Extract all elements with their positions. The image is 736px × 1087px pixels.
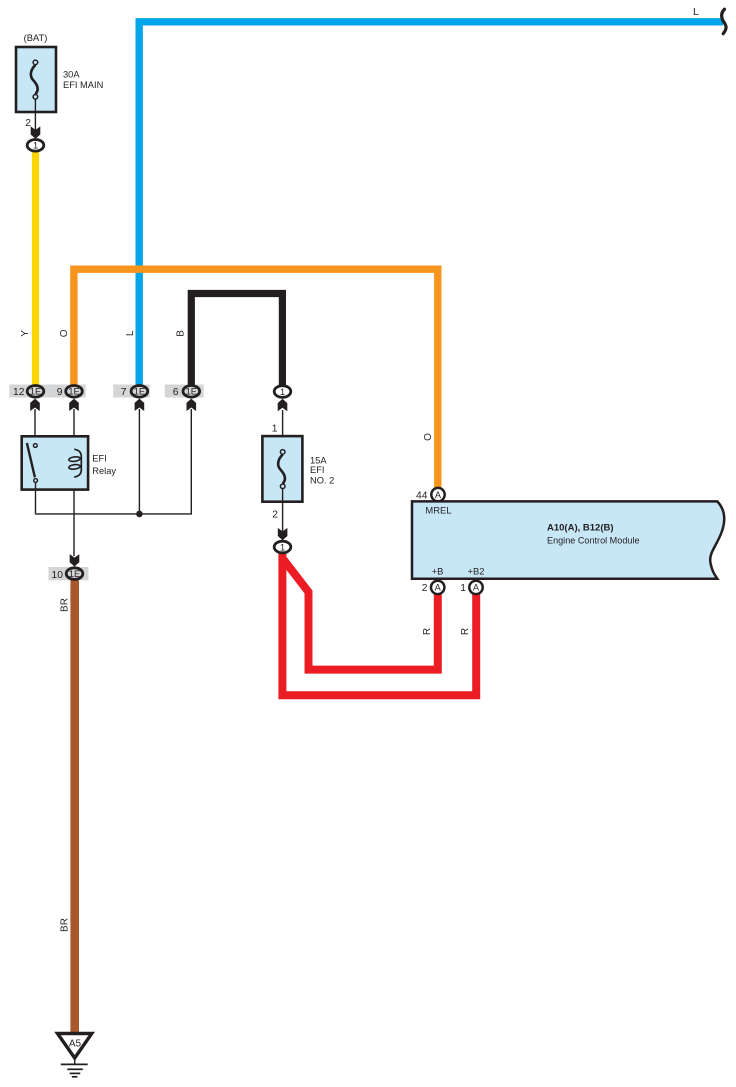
wire L (cyan) horizontal+vertical (139, 22, 723, 386)
wire fuse 15A to lower oval (282, 489, 284, 532)
svg-text:EFI: EFI (92, 454, 106, 464)
svg-text:1E: 1E (69, 569, 80, 579)
connector oval 1 (top of 15A column) (274, 386, 291, 398)
svg-text:NO. 2: NO. 2 (310, 476, 334, 486)
svg-text:6: 6 (173, 387, 179, 398)
pin 9 label (57, 387, 63, 398)
relay coil (69, 449, 82, 477)
svg-text:2: 2 (25, 118, 31, 129)
svg-text:A: A (435, 583, 442, 593)
svg-text:EFI: EFI (310, 465, 324, 475)
label R (+B column) (422, 628, 433, 635)
relay EFI box (22, 436, 88, 489)
svg-text:1: 1 (33, 141, 38, 151)
ground stem (74, 1058, 76, 1064)
svg-text:Y: Y (20, 330, 31, 337)
pin 44 circle A (431, 488, 444, 501)
arrow down into connector 1 (30A column) (31, 126, 41, 138)
wire pin12 to relay switch (34, 409, 36, 443)
svg-text:1: 1 (280, 542, 285, 552)
wire BR (brown) (70, 581, 79, 1033)
label EFI Relay (92, 454, 116, 476)
label 15A EFI NO. 2 (310, 456, 334, 486)
ground bar 4 (72, 1076, 78, 1078)
fuse 15A element symbol (278, 450, 285, 489)
svg-text:+B2: +B2 (468, 566, 485, 577)
svg-text:30A: 30A (63, 70, 80, 80)
svg-text:1E: 1E (186, 387, 197, 397)
wire O (orange) (74, 269, 438, 489)
svg-text:A5: A5 (69, 1039, 82, 1050)
svg-text:BR: BR (60, 598, 71, 612)
label Y (20, 330, 31, 337)
relay switch contacts (27, 443, 38, 482)
connector 1E pin9 oval (66, 386, 83, 398)
svg-text:EFI MAIN: EFI MAIN (63, 80, 103, 90)
connector oval 1 (below 30A fuse) (27, 140, 44, 152)
svg-text:Relay: Relay (92, 466, 116, 476)
pin 2 label (15A fuse bottom) (272, 510, 278, 521)
pin 2 label (+B) (422, 583, 428, 594)
fuse 30A element symbol (31, 60, 38, 99)
wire pin9 through relay coil down to 10 connector (73, 409, 75, 556)
arrow up into pin9 oval (69, 399, 79, 411)
label BR (lower) (60, 918, 71, 932)
connector 10 grey band (49, 567, 89, 580)
label L (mid) (125, 330, 136, 336)
label +B (432, 566, 444, 577)
svg-text:R: R (460, 628, 471, 635)
svg-text:+B: +B (432, 566, 444, 577)
svg-text:7: 7 (121, 387, 127, 398)
svg-text:BR: BR (60, 918, 71, 932)
label 30A EFI MAIN (63, 70, 103, 91)
pin 44 label (416, 491, 428, 502)
pin 1 label (+B2) (460, 583, 466, 594)
arrow up into pin7 oval (135, 399, 145, 411)
svg-text:R: R (422, 628, 433, 635)
label +B2 (468, 566, 485, 577)
label R (+B2 column) (460, 628, 471, 635)
label O (right, at pin 44 column) (423, 433, 434, 441)
svg-text:1: 1 (460, 583, 466, 594)
ECM box (412, 501, 724, 578)
wire relay switch to bottom bus (35, 483, 37, 513)
connector 1E pin12 oval (27, 386, 44, 398)
svg-text:12: 12 (13, 387, 25, 398)
svg-text:(BAT): (BAT) (24, 32, 48, 43)
svg-text:1E: 1E (68, 387, 79, 397)
wire Y (yellow) (32, 152, 39, 386)
svg-text:1E: 1E (30, 387, 41, 397)
svg-text:MREL: MREL (425, 505, 451, 516)
svg-text:O: O (59, 329, 70, 337)
pin 1 label (15A fuse top) (272, 423, 278, 434)
fuse 30A EFI MAIN box (16, 47, 56, 112)
label BR (upper) (60, 598, 71, 612)
svg-text:A: A (473, 583, 480, 593)
connector row grey band 6 (165, 385, 204, 398)
bus wire to pin6 column (35, 409, 192, 514)
arrow up into oval 1 (15A column) (278, 399, 288, 411)
label (BAT) (24, 32, 48, 43)
label O (left) (59, 329, 70, 337)
label A10(A), B12(B) (547, 523, 614, 534)
wire R outer (fuse to +B2) (282, 553, 476, 695)
ground bar 2 (67, 1068, 83, 1070)
pin 12 label (13, 387, 25, 398)
junction dot (136, 511, 143, 518)
pin 6 label (173, 387, 179, 398)
ground bar 1 (61, 1063, 88, 1065)
arrow up into pin12 oval (30, 399, 40, 411)
wire oval1 to fuse 15A (282, 410, 284, 452)
svg-text:L: L (125, 330, 136, 336)
label Engine Control Module (547, 536, 640, 546)
arrow up into pin6 oval (187, 399, 197, 411)
arrow down into lower oval 1 (278, 528, 288, 540)
wire R inner (fuse to +B) (284, 560, 438, 670)
connector row grey band 7 (113, 385, 150, 398)
connector 1E pin10 oval (66, 568, 83, 580)
pin 2 circle A (431, 581, 444, 594)
svg-text:O: O (423, 433, 434, 441)
svg-text:A10(A), B12(B): A10(A), B12(B) (547, 523, 614, 534)
label L (top right) (693, 6, 699, 18)
svg-text:15A: 15A (310, 456, 327, 466)
pin 10 label (52, 570, 64, 581)
svg-text:9: 9 (57, 387, 63, 398)
pin 7 label (121, 387, 127, 398)
connector row grey band 12/9 (9, 385, 85, 398)
connector 1E pin7 oval (131, 386, 148, 398)
svg-text:B: B (176, 330, 187, 337)
svg-text:1E: 1E (134, 387, 145, 397)
branch wire to pin7 column (138, 409, 140, 514)
svg-text:44: 44 (416, 491, 428, 502)
ground bar 3 (70, 1072, 81, 1074)
svg-text:2: 2 (422, 583, 428, 594)
svg-text:1: 1 (272, 423, 278, 434)
pin 2 of fuse 30A (25, 118, 31, 129)
wire B (black loop) (191, 294, 282, 387)
fuse 15A EFI NO.2 box (262, 436, 302, 502)
svg-text:L: L (693, 6, 699, 18)
connector 1E pin6 oval (183, 386, 200, 398)
svg-text:A: A (435, 490, 442, 500)
wire fuse30A to connector (34, 99, 36, 131)
svg-text:Engine Control Module: Engine Control Module (547, 536, 640, 546)
wire continuation squiggle top right (722, 9, 726, 34)
pin 1 circle A (469, 581, 482, 594)
connector oval 1 (below 15A fuse) (274, 541, 291, 553)
svg-text:1: 1 (280, 387, 285, 397)
svg-text:10: 10 (52, 570, 64, 581)
label MREL (425, 505, 451, 516)
arrow down into connector 10 (70, 554, 80, 566)
ground A5 triangle (58, 1034, 92, 1059)
svg-text:2: 2 (272, 510, 278, 521)
label B (176, 330, 187, 337)
